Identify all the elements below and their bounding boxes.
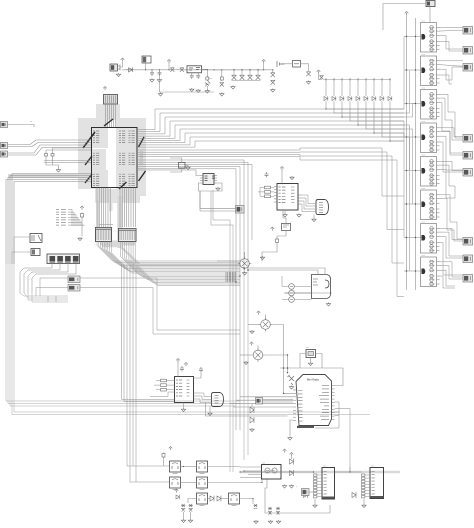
left loop bundle — [6, 264, 370, 415]
wire top right — [383, 4, 426, 31]
wire U7 gnd — [363, 499, 365, 504]
bundle knot near spine — [226, 272, 236, 282]
diode pair bottom 2b — [276, 507, 280, 515]
resistor R21 at U3 — [161, 384, 167, 387]
LED indicator D21 — [289, 290, 295, 296]
radio left pin labels — [298, 391, 303, 422]
highlighted bus below MCU 2 — [117, 196, 123, 248]
wire R5R6 gnd — [46, 157, 59, 169]
wire vcc feeders — [406, 15, 408, 290]
wire rail to R2 — [214, 70, 222, 76]
ground diode row — [231, 86, 235, 90]
resistor R2 vertical — [220, 76, 223, 81]
wire T2 right path — [272, 325, 283, 373]
ground U7 — [362, 504, 366, 508]
VCC at T3 — [250, 342, 254, 346]
fan root wire — [319, 74, 323, 80]
bus MCU right lower to relay feeders — [137, 148, 404, 297]
ground D8 — [271, 89, 275, 93]
ground T3 — [244, 361, 248, 365]
diode under R2 — [220, 83, 224, 87]
radio module body — [296, 375, 332, 426]
svg-text:Mini Radio: Mini Radio — [307, 378, 320, 382]
wires blocks to connectors group C — [440, 228, 464, 288]
transformer T4 — [170, 461, 181, 474]
diode row D3-D6 — [232, 75, 261, 80]
junction dots Q5 — [406, 170, 416, 171]
junction dots Q6 — [406, 203, 416, 204]
plug P1 left — [1, 143, 8, 149]
wire input to Q1 — [404, 36, 422, 38]
wires U3 to J4 — [194, 393, 212, 403]
radio left wires 4 — [230, 403, 293, 405]
junction dots Q8 — [406, 270, 416, 271]
MCU U1 pin bank 7 — [129, 131, 135, 143]
DIN connector J4 — [212, 393, 224, 407]
capacitor C4 — [196, 74, 200, 79]
net labels column — [56, 210, 66, 226]
diode near U6 — [304, 492, 308, 498]
svg-text:xxx: xxx — [422, 155, 426, 157]
VCC bottom left — [169, 447, 173, 451]
regulator U9 — [187, 66, 202, 73]
U3 pin text right — [187, 380, 190, 396]
svg-text:xxx: xxx — [422, 121, 426, 123]
IC U3 body — [175, 377, 194, 403]
DIN connector J3 — [316, 200, 329, 215]
wire top right 2 — [429, 7, 431, 23]
gnd rail below — [160, 73, 215, 92]
junction dots Q7 — [406, 237, 416, 238]
ground mid rail — [158, 93, 162, 97]
wires U2 to J3 — [302, 195, 317, 212]
radio left wires 5 — [233, 406, 293, 408]
relay driver block Q5 — [421, 155, 440, 187]
wire VCC to rail — [168, 63, 170, 70]
output connector CN3 — [463, 64, 473, 72]
wires blocks to connectors group B — [440, 128, 464, 241]
wire diode stack — [251, 404, 253, 407]
connector J5 jack 4 — [73, 256, 79, 263]
ground J3 — [312, 218, 316, 222]
wires labels to resistor — [68, 210, 84, 227]
wire U3 gnd — [183, 403, 185, 409]
pin labels right of MCU a — [140, 152, 144, 164]
wire F1 right — [301, 64, 309, 71]
IC U4 body — [262, 465, 282, 480]
relay driver block Q2 — [421, 54, 440, 86]
LED pair bottom 1 — [181, 504, 186, 512]
ground diode stack — [250, 428, 254, 432]
wire diodes T9 — [221, 498, 229, 500]
svg-text:x: x — [296, 486, 297, 488]
label P6 — [296, 486, 297, 488]
MCU U1 pin bank 4 — [119, 131, 125, 143]
output connector CN9 — [463, 275, 473, 283]
plug P9 left edge — [1, 122, 8, 128]
wire T5 right — [208, 466, 241, 468]
junction dots bottom row — [183, 466, 268, 499]
LED row D10-D18 — [324, 96, 392, 100]
wires R to U2 — [258, 188, 274, 197]
wires R to U3 left — [154, 381, 175, 390]
wire T4-T5 — [181, 466, 197, 468]
transformer T8 — [197, 493, 208, 506]
resistor R7 — [81, 213, 84, 219]
junction radio top2 — [283, 367, 285, 369]
buzzer LS1 — [110, 64, 120, 71]
resistor R13 — [276, 238, 279, 244]
opto T2 — [259, 318, 273, 332]
IC U8 — [203, 174, 215, 185]
radio module title — [307, 378, 320, 382]
ground U6 — [313, 504, 317, 508]
junction dots amp — [243, 267, 248, 270]
pin labels below MCU — [109, 204, 113, 210]
wire Y2 gnd — [310, 358, 312, 363]
diode left of T8 — [176, 495, 179, 500]
long wire y261 — [217, 260, 240, 262]
radio left wires 2 — [240, 396, 293, 398]
junction dots power rail — [145, 69, 273, 70]
diagonal wedge 1 — [83, 132, 95, 148]
feeder links — [404, 37, 415, 272]
resistor R20 at U3 — [161, 379, 167, 382]
wire amp top — [248, 270, 318, 275]
output connector CN5 — [463, 152, 473, 160]
connector J5 jack 3 — [65, 256, 71, 263]
diode pair between T8 T9 — [210, 496, 221, 502]
diagonal wedge 4 — [85, 174, 92, 183]
wires P1 to MCU bank — [8, 140, 92, 155]
rail left stub — [122, 69, 126, 71]
amp box U5 — [312, 275, 331, 299]
VCC2 arrow — [262, 60, 266, 64]
battery BT1 — [277, 61, 285, 67]
ground J4 — [208, 412, 212, 416]
junction dots Q4 — [406, 136, 416, 137]
svg-text:xxx: xxx — [422, 188, 426, 190]
wire vcc2 to rail — [264, 63, 273, 73]
diode D9 — [306, 72, 310, 76]
wire LED pair gnd — [183, 512, 185, 519]
wire band U6 to U7 — [335, 471, 362, 473]
wire J3 gnd — [313, 215, 315, 219]
ground above U2 right — [290, 176, 294, 180]
wire U3 right down — [206, 403, 288, 417]
wire B1 down — [277, 231, 286, 239]
diode column U4 right — [290, 459, 294, 477]
wires P5 to radio — [263, 400, 294, 403]
wire T7 right — [208, 479, 263, 483]
U2 left pin stubs — [274, 187, 277, 203]
plug P7 — [68, 276, 80, 283]
wire U2 to B1 — [283, 210, 286, 224]
junction dots radio left — [283, 354, 288, 394]
bus MCU right to LED runs — [137, 109, 404, 147]
wire U6 gnd — [314, 499, 316, 504]
ground bottom pair a — [268, 520, 272, 524]
pin header HS1 — [314, 474, 317, 498]
label U4 — [262, 463, 265, 465]
U7 pin labels — [372, 472, 375, 498]
ground below buzzer — [116, 73, 120, 77]
wire T3 up — [257, 346, 259, 351]
diode stack below P5 — [250, 407, 254, 423]
wire K1 down to rail — [145, 63, 147, 70]
MCU U1 pin bank 6 — [119, 174, 125, 186]
ground U4 right — [289, 485, 293, 489]
output connector CN4 — [463, 135, 473, 143]
wire U2 gnd — [284, 210, 286, 214]
wire input to Q3 — [404, 103, 422, 105]
resistor pack RN2 — [119, 229, 137, 242]
label Y2 — [306, 347, 309, 349]
VCC U4 a — [283, 449, 287, 453]
ground R5R6 — [56, 169, 60, 173]
box B1 below U2 — [282, 224, 291, 231]
resistor pack RN1 — [96, 228, 112, 242]
fuse F1 — [293, 61, 301, 68]
svg-text:xx: xx — [30, 121, 33, 123]
antenna symbol above buzzer — [121, 58, 125, 62]
relay driver block Q6 — [421, 188, 440, 220]
wire band to U6 — [240, 471, 314, 473]
svg-text:xxx: xxx — [262, 463, 265, 465]
U7 bottom label — [370, 496, 384, 498]
resistor R30 — [162, 453, 165, 459]
output connector CN6 — [463, 169, 473, 177]
ground amp — [326, 303, 330, 307]
resistor R_led — [206, 76, 209, 81]
U2 pin text left — [279, 187, 286, 203]
ground D9 — [306, 81, 310, 85]
crystal X2 on rail — [180, 68, 184, 72]
vertical spine — [230, 220, 248, 472]
U4 transistors — [265, 468, 277, 473]
wires header to U7 — [365, 475, 370, 497]
wire R7 down — [81, 218, 83, 237]
ground U2 below — [283, 214, 287, 218]
ground LED pair 2 — [188, 519, 192, 523]
VCC above R7 — [80, 206, 84, 210]
ground Y2 — [308, 362, 312, 366]
ground C3 — [190, 88, 194, 92]
fan top rail — [324, 79, 391, 81]
U2 right pin stubs — [298, 195, 302, 204]
wires rail to diode row — [232, 70, 261, 81]
diode near U7 — [352, 492, 356, 498]
relay driver block Q4 — [421, 121, 440, 153]
U6 pin labels — [324, 472, 327, 498]
diode D in rail — [126, 67, 133, 72]
wire diode col — [291, 456, 293, 459]
wire T8 left — [188, 499, 197, 504]
resistor R12 at U2 — [265, 195, 271, 198]
wires U8 left — [137, 170, 200, 176]
transformer T6 — [170, 477, 181, 490]
svg-text:xxx: xxx — [323, 466, 326, 468]
wire vcc U2 — [281, 170, 283, 184]
highlighted diagonal fan — [102, 246, 240, 265]
diode pair bottom far left — [254, 504, 258, 509]
LED indicator D20 — [289, 284, 295, 290]
wire U4 bottom loop — [265, 479, 330, 513]
fan output runs to relay bus — [326, 101, 404, 141]
radio left pin stubs — [293, 390, 296, 421]
wires header to U6 — [317, 475, 322, 497]
wire reg output to R — [202, 69, 208, 76]
wire vcc U3 — [177, 362, 179, 377]
highlighted bus below MCU — [96, 200, 99, 240]
ground bottom pair b — [276, 520, 280, 524]
wire C9 down — [194, 373, 202, 379]
fan RN2 to right bus — [121, 242, 241, 286]
wires P7 region extra — [48, 296, 56, 302]
highlighted band audio — [285, 292, 332, 294]
junction dots Q1 — [406, 36, 416, 37]
ground U4 left — [282, 485, 286, 489]
radio left wires 1 — [284, 373, 294, 394]
VCC at J2 — [103, 87, 107, 91]
wires to plug P4 — [200, 191, 236, 211]
diagonal wedge 6 — [139, 171, 146, 181]
wire T2 up — [265, 315, 267, 320]
main 5V rail — [133, 69, 264, 71]
wire T6-T7 — [181, 482, 197, 484]
wires mid bundle to MCU — [44, 148, 91, 163]
crystal box Y2 — [306, 350, 316, 358]
labels between verticals — [99, 224, 113, 226]
wire R to gnd — [206, 86, 208, 90]
ground Y1 — [186, 166, 190, 170]
capacitor C7 above U2 — [265, 172, 269, 177]
plug P2 left — [1, 151, 8, 157]
wire feeder 2 — [415, 18, 417, 290]
capacitor C1 — [150, 71, 154, 76]
radio bottom label — [297, 426, 314, 428]
svg-text:xxx: xxx — [371, 466, 374, 468]
ground C2 — [157, 79, 161, 83]
svg-text:xxx: xxx — [422, 222, 426, 224]
junction dots on rail — [233, 69, 258, 70]
wire T3 right path — [265, 355, 288, 373]
U3 pin text — [176, 380, 182, 396]
diagonal wedge 3 — [85, 156, 92, 165]
MCU U1 pin bank 9 — [129, 174, 135, 186]
crystal X1 on rail — [170, 68, 174, 72]
ground LED — [205, 90, 209, 94]
junction dots Q2 — [406, 69, 416, 70]
junction radio top — [287, 367, 289, 369]
ground IR — [289, 386, 293, 390]
bottom left verticals — [127, 264, 169, 482]
wire from P9 — [8, 125, 35, 128]
top connector J10 — [426, 1, 435, 7]
diode pair bottom 2a — [268, 507, 272, 515]
wire J4 gnd — [209, 407, 211, 413]
wire input to Q4 — [404, 136, 422, 138]
wire T9 right — [240, 499, 254, 505]
ground T2 — [250, 330, 254, 334]
wire input to Q7 — [404, 237, 422, 239]
relay K3 — [31, 249, 40, 256]
transformer T7 — [197, 477, 208, 490]
net highlight overlay around MCU — [78, 104, 146, 203]
wire T2 left — [248, 324, 259, 326]
plug P5 radio — [256, 398, 263, 405]
relay driver block Q7 — [421, 222, 440, 254]
spine top links — [211, 190, 233, 225]
wire input to Q8 — [404, 270, 422, 272]
crystal Y1 — [179, 163, 186, 169]
ground R2 — [220, 93, 224, 97]
plug P8 — [68, 285, 80, 292]
svg-text:xxx: xxx — [306, 347, 309, 349]
IC U7 body — [370, 468, 384, 499]
VCC LED fan — [317, 70, 321, 74]
svg-text:xxx: xxx — [422, 88, 426, 90]
highlighted bus left of MCU — [8, 174, 90, 178]
opto T3 — [251, 348, 265, 362]
plug P6 jack — [302, 489, 310, 496]
VCC at T2 — [257, 311, 261, 315]
VCC above U2 — [280, 167, 284, 171]
relay driver block Q1 — [421, 21, 440, 53]
VCC U3 a — [176, 359, 180, 363]
wires fan vertical — [326, 81, 390, 96]
relay driver block Q3 — [421, 88, 440, 120]
wire LED pair gnd2 — [190, 512, 192, 519]
resistor R11 at U2 — [265, 191, 271, 194]
resistor R5 — [45, 153, 48, 158]
wire bundle J2-MCU — [108, 104, 116, 127]
IC U2 body — [277, 184, 298, 211]
radio left wires 6 — [290, 420, 293, 436]
diagonal wedge 5 — [139, 137, 145, 147]
wires blocks to connectors group A — [440, 27, 464, 155]
bus MCU right to mid section — [137, 160, 252, 430]
LED indicator D22 — [289, 297, 295, 303]
wire y1 gnd — [185, 164, 188, 167]
radio top wire — [280, 368, 343, 386]
wires left into U3 — [122, 264, 175, 402]
highlighted band bottom right — [240, 471, 400, 474]
connector J5 jack 2 — [57, 256, 63, 263]
fan tick marks — [326, 78, 390, 80]
wire Y1 down — [170, 168, 182, 172]
VCC U4 b — [290, 453, 294, 457]
wires P7 P8 right — [36, 278, 240, 334]
wires K2 — [14, 237, 30, 264]
radio right side collector — [315, 402, 350, 472]
ground U8 — [216, 187, 220, 191]
diode at fan root — [320, 76, 324, 80]
MCU U1 pin bank 3 — [93, 174, 99, 186]
VCC top right — [405, 12, 409, 16]
radio right pin stubs — [332, 386, 335, 420]
wires lower bundle from MCU to left — [6, 174, 91, 265]
diagonal wedge 7 — [119, 182, 127, 189]
wire T8 diodes — [208, 498, 211, 500]
output connector CN2 — [463, 47, 473, 55]
relay K2 — [30, 234, 42, 243]
VCC right of B1 — [271, 227, 275, 231]
wire to opto T1 — [244, 252, 246, 259]
svg-text:xxx: xxx — [209, 78, 213, 80]
wire P6 — [309, 491, 314, 493]
wire input to Q2 — [404, 69, 422, 71]
